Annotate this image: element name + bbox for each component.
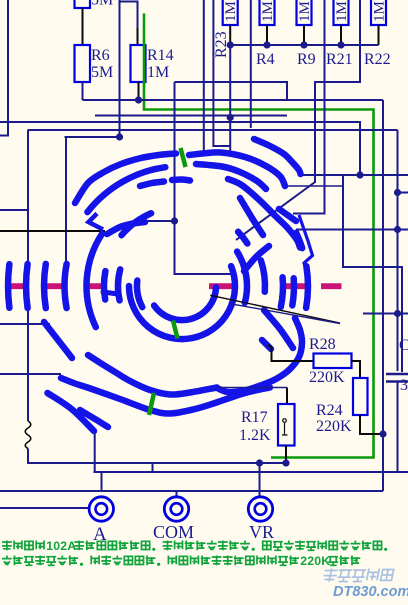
selector dash: [281, 283, 305, 289]
switch ring r101 right: [281, 277, 283, 307]
resistor R23: [223, 0, 238, 25]
svg-text:5M: 5M: [91, 64, 113, 81]
svg-text:R9: R9: [297, 51, 316, 68]
switch ring r64 left: [118, 269, 120, 300]
switch ring r77 NE piece: [238, 232, 247, 244]
svg-text:R22: R22: [364, 51, 391, 68]
switch ring r65 right: [237, 252, 247, 303]
wiper pointer lower: [229, 303, 340, 323]
switch arc NE-2: [189, 152, 285, 186]
resistor R28: [314, 354, 352, 369]
switch arc SW piece: [44, 322, 72, 358]
switch arc NE piece: [279, 209, 296, 221]
svg-text:R4: R4: [256, 51, 275, 68]
svg-text:R17: R17: [241, 409, 268, 426]
wire: [137, 220, 175, 222]
caption line 2: [2, 556, 12, 566]
terminal A: [89, 497, 113, 521]
resistor R22: [371, 0, 386, 25]
switch arc NE-3: [196, 164, 266, 189]
wire R14 bottom: [138, 82, 140, 100]
wire: [293, 0, 325, 214]
wire capacitor bottom: [397, 382, 399, 472]
wire stub: [398, 192, 408, 194]
svg-text:1M: 1M: [260, 1, 276, 22]
green wiper tick top: [181, 148, 186, 167]
svg-text:R28: R28: [309, 336, 336, 353]
selector dash: [44, 283, 66, 289]
switch ring r120 NW: [87, 167, 165, 212]
wire: [383, 129, 398, 131]
bus wire 2: [94, 471, 408, 473]
caption line 1: [2, 541, 12, 551]
wire arc to bus: [94, 433, 96, 472]
switch contact r126 E: [306, 266, 308, 308]
node junction: [227, 41, 234, 48]
watermark brand: [322, 569, 394, 582]
wire: [229, 25, 231, 45]
wire stub: [0, 135, 9, 137]
svg-text:0: 0: [53, 539, 60, 553]
wire fuse branch: [27, 130, 29, 421]
wire horizontal: [95, 115, 287, 117]
wire: [250, 0, 252, 128]
wire fuse to bus: [28, 449, 287, 464]
switch outer arc NW: [75, 154, 176, 204]
svg-text:1M: 1M: [147, 64, 169, 81]
wire horizontal: [65, 136, 120, 138]
switch bottom arc BA1: [88, 355, 217, 395]
node junction: [263, 41, 270, 48]
wire: [174, 82, 176, 100]
selector dash: [7, 283, 25, 289]
svg-text:2: 2: [60, 539, 67, 553]
switch ring r112 right: [292, 278, 294, 305]
switch ring r79 NW: [122, 213, 152, 235]
node junction: [356, 171, 363, 178]
black wire: [0, 230, 105, 232]
wire: [303, 25, 305, 45]
wire vertical left: [7, 0, 9, 136]
wire horizontal: [83, 99, 384, 101]
wire: [101, 472, 103, 491]
switch ring r78 left: [104, 271, 105, 299]
wire to VR: [259, 463, 261, 497]
svg-text:5M: 5M: [91, 0, 113, 9]
wire: [397, 130, 399, 371]
svg-text:2: 2: [307, 554, 314, 568]
switch ring r83 right: [261, 260, 265, 291]
wire COM stub: [176, 491, 178, 497]
switch zigzag notch: [89, 214, 104, 230]
wire arc to R28: [268, 345, 313, 361]
svg-text:R21: R21: [326, 51, 353, 68]
wire R28-R24: [352, 361, 361, 378]
wire vertical: [119, 0, 121, 137]
switch long contact r95: [87, 234, 102, 327]
svg-text:VR: VR: [249, 522, 274, 542]
wire: [266, 25, 268, 45]
svg-text:R14: R14: [147, 47, 174, 64]
node junction: [394, 310, 401, 317]
svg-text:R24: R24: [316, 402, 343, 419]
resistor R21: [334, 0, 349, 25]
selector dash: [321, 283, 342, 289]
wire staircase: [230, 45, 246, 157]
thin contact feed wire: [285, 185, 343, 187]
wire: [203, 0, 205, 152]
resistor R6: [75, 45, 91, 82]
wire: [378, 25, 380, 45]
wire R24 bottom: [360, 415, 383, 434]
thermistor mark: [283, 419, 287, 423]
resistor R4: [260, 0, 275, 25]
wire: [175, 82, 288, 100]
svg-text:1M: 1M: [372, 1, 388, 22]
wire horizontal: [0, 122, 398, 175]
capacitor C3 plate: [386, 380, 408, 383]
switch ring r53: [129, 266, 235, 339]
switch ring r106 piece: [140, 182, 164, 187]
svg-text:COM: COM: [153, 522, 194, 542]
green test path: [144, 14, 374, 458]
resistor R14: [131, 45, 146, 82]
switch contact r126 E upper: [296, 233, 302, 248]
node junction: [227, 114, 234, 121]
wire long vertical: [382, 100, 384, 491]
svg-text:0: 0: [314, 554, 321, 568]
wire horizontal: [0, 373, 61, 375]
wire A stub: [0, 507, 89, 509]
wire top jog: [120, 2, 138, 29]
switch ring r34: [154, 287, 216, 320]
wire horizontal: [0, 323, 50, 325]
thin wire to R17: [218, 387, 288, 389]
switch SE big arc: [219, 318, 302, 392]
wire jog: [152, 463, 154, 472]
selector dash: [84, 283, 102, 289]
switch spiral piece NW: [107, 222, 145, 234]
wire horizontal: [363, 313, 408, 315]
resistor R9: [297, 0, 312, 25]
switch track transition: [299, 215, 313, 268]
svg-text:R6: R6: [91, 47, 110, 64]
terminal A inner: [96, 503, 108, 515]
switch contact r174: [8, 264, 9, 308]
switch outer arc NE spiral: [254, 139, 301, 174]
node junction: [116, 133, 123, 140]
fuse: [25, 421, 31, 449]
svg-text:1M: 1M: [334, 1, 350, 22]
wire R17 top: [286, 388, 288, 405]
switch bottom arc BA2: [61, 378, 270, 414]
svg-text:DT830.com: DT830.com: [333, 584, 408, 600]
wire bank bus: [230, 44, 379, 46]
wiper pointer: [210, 295, 340, 323]
resistor R5: [75, 0, 91, 8]
wire R14 top: [137, 28, 139, 45]
svg-text:2: 2: [300, 554, 307, 568]
bus wire 3: [0, 490, 383, 492]
svg-text:1: 1: [46, 539, 53, 553]
switch outer SW arc: [48, 393, 95, 431]
wire horizontal y175: [303, 174, 408, 176]
capacitor C3 plate: [386, 373, 408, 376]
switch arc NE-4: [228, 179, 300, 248]
green wiper tick bottom: [149, 393, 154, 415]
wire: [340, 25, 342, 45]
switch ring bridge: [103, 292, 118, 294]
terminal VR inner: [255, 503, 267, 515]
svg-text:220K: 220K: [309, 369, 345, 386]
switch contact r156: [26, 264, 28, 308]
resistor R24: [353, 378, 368, 415]
node junction: [379, 430, 386, 437]
node junction: [300, 41, 307, 48]
wire: [213, 0, 230, 146]
wire: [175, 221, 234, 274]
wire right jog: [236, 0, 360, 240]
wire R6 bottom: [82, 82, 84, 100]
wire horizontal: [296, 229, 408, 231]
svg-text:1M: 1M: [223, 1, 239, 22]
node junction: [135, 96, 142, 103]
green wiper tick inner: [173, 321, 178, 339]
wire R17 bottom: [285, 446, 287, 464]
switch SE arc c1a: [264, 310, 293, 348]
node junction: [394, 226, 401, 233]
terminal COM: [164, 497, 188, 521]
svg-text:1M: 1M: [297, 1, 313, 22]
node junction: [337, 41, 344, 48]
svg-text:220K: 220K: [316, 418, 352, 435]
node junction: [171, 217, 178, 224]
switch connector arc NE: [244, 246, 269, 271]
wire horizontal: [28, 129, 384, 131]
switch contact r117: [65, 264, 67, 308]
selector dash: [209, 283, 233, 289]
svg-text:3: 3: [400, 377, 408, 394]
wire R5-R6: [82, 8, 84, 45]
node junction: [282, 459, 289, 466]
wire into circle: [174, 100, 176, 221]
node junction: [394, 189, 401, 196]
svg-text:C: C: [399, 337, 408, 354]
switch arc piece: [80, 410, 108, 427]
wire: [0, 209, 28, 211]
switch contact piece: [262, 340, 271, 349]
terminal COM inner: [171, 503, 183, 515]
wire: [65, 137, 67, 271]
node junction: [256, 459, 263, 466]
resistor R17: [278, 404, 295, 446]
switch arc NE piece: [240, 198, 263, 235]
switch contact r138: [44, 264, 46, 308]
wire: [343, 175, 402, 372]
svg-text:1.2K: 1.2K: [239, 427, 271, 444]
terminal VR: [248, 497, 272, 521]
switch ring r106 piece: [172, 179, 190, 180]
switch ring r45 left: [137, 281, 142, 308]
